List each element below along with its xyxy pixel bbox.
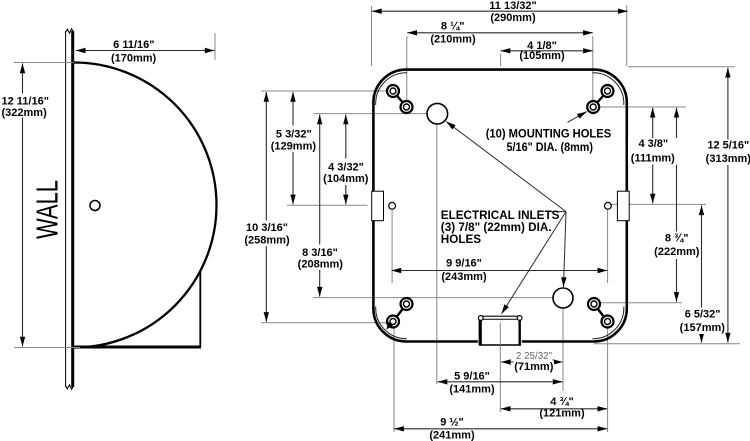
svg-text:(313mm): (313mm) xyxy=(706,153,750,165)
svg-text:(111mm): (111mm) xyxy=(631,152,675,164)
svg-text:12 5/16": 12 5/16" xyxy=(707,139,749,151)
svg-text:6 11/16": 6 11/16" xyxy=(113,39,154,51)
svg-text:(222mm): (222mm) xyxy=(654,246,700,258)
svg-text:6 5/32": 6 5/32" xyxy=(685,308,721,320)
svg-text:9 ½": 9 ½" xyxy=(440,417,464,429)
svg-text:(141mm): (141mm) xyxy=(449,384,495,396)
svg-text:(121mm): (121mm) xyxy=(539,408,585,420)
svg-text:(170mm): (170mm) xyxy=(111,53,157,65)
svg-text:8 ¼": 8 ¼" xyxy=(441,21,465,33)
svg-text:12 11/16": 12 11/16" xyxy=(2,96,49,108)
svg-text:WALL: WALL xyxy=(30,180,65,239)
svg-text:(104mm): (104mm) xyxy=(323,173,369,185)
svg-text:11 13/32": 11 13/32" xyxy=(489,0,536,12)
svg-text:(210mm): (210mm) xyxy=(430,34,476,46)
svg-text:(243mm): (243mm) xyxy=(441,271,487,283)
svg-text:(10) MOUNTING HOLES: (10) MOUNTING HOLES xyxy=(486,128,612,141)
svg-text:4 3/32": 4 3/32" xyxy=(328,162,364,174)
svg-text:(241mm): (241mm) xyxy=(429,429,475,441)
svg-text:(208mm): (208mm) xyxy=(298,259,344,271)
svg-text:8 3/16": 8 3/16" xyxy=(302,247,338,259)
svg-text:(290mm): (290mm) xyxy=(490,12,536,24)
svg-text:10 3/16": 10 3/16" xyxy=(246,222,288,234)
svg-text:4 3/8": 4 3/8" xyxy=(638,138,668,150)
svg-text:5 3/32": 5 3/32" xyxy=(276,129,312,141)
svg-text:HOLES: HOLES xyxy=(441,233,481,246)
svg-text:(157mm): (157mm) xyxy=(680,322,726,334)
svg-text:(258mm): (258mm) xyxy=(244,235,290,247)
svg-text:(105mm): (105mm) xyxy=(519,50,565,62)
svg-text:4 ¾": 4 ¾" xyxy=(550,396,574,408)
svg-text:(71mm): (71mm) xyxy=(514,361,553,373)
svg-text:(129mm): (129mm) xyxy=(271,140,317,152)
svg-text:8 ¾": 8 ¾" xyxy=(665,233,689,245)
svg-text:5 9/16": 5 9/16" xyxy=(454,371,490,383)
svg-text:9 9/16": 9 9/16" xyxy=(446,258,482,270)
svg-text:5/16" DIA. (8mm): 5/16" DIA. (8mm) xyxy=(507,141,594,154)
svg-text:(322mm): (322mm) xyxy=(2,107,48,119)
